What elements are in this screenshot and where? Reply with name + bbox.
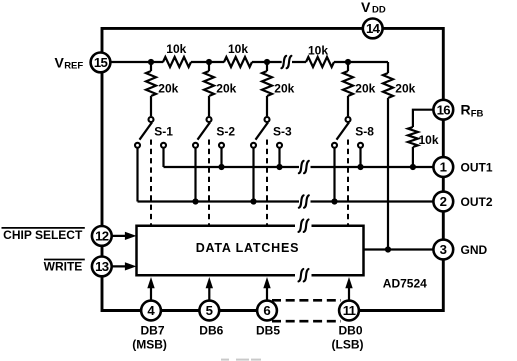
svg-text:12: 12 bbox=[95, 229, 109, 244]
svg-text:OUT1: OUT1 bbox=[461, 160, 493, 174]
svg-text:16: 16 bbox=[437, 102, 451, 117]
svg-text:V: V bbox=[55, 55, 65, 71]
svg-text:DATA LATCHES: DATA LATCHES bbox=[196, 241, 300, 255]
svg-text:AD7524: AD7524 bbox=[383, 277, 427, 291]
svg-text:11: 11 bbox=[343, 303, 356, 318]
svg-text:DB7: DB7 bbox=[140, 323, 164, 337]
svg-text:(LSB): (LSB) bbox=[332, 337, 364, 351]
svg-text:GND: GND bbox=[461, 243, 488, 257]
svg-text:20k: 20k bbox=[395, 81, 415, 95]
svg-text:6: 6 bbox=[263, 303, 270, 318]
svg-text:10k: 10k bbox=[419, 133, 439, 147]
svg-text:10k: 10k bbox=[228, 42, 248, 56]
svg-text:5: 5 bbox=[206, 303, 213, 318]
svg-text:15: 15 bbox=[94, 55, 108, 70]
svg-text:S-8: S-8 bbox=[355, 125, 374, 139]
svg-text:DB6: DB6 bbox=[199, 323, 223, 337]
svg-text:10k: 10k bbox=[166, 42, 186, 56]
svg-text:DD: DD bbox=[372, 5, 386, 16]
svg-text:CHIP SELECT: CHIP SELECT bbox=[3, 228, 83, 242]
svg-text:S-1: S-1 bbox=[154, 125, 173, 139]
svg-text:20k: 20k bbox=[216, 81, 236, 95]
svg-text:14: 14 bbox=[366, 21, 381, 36]
svg-text:S-3: S-3 bbox=[273, 125, 292, 139]
svg-text:2: 2 bbox=[440, 194, 447, 209]
svg-text:R: R bbox=[461, 102, 471, 118]
svg-text:1: 1 bbox=[440, 160, 447, 175]
svg-text:WRITE: WRITE bbox=[44, 260, 83, 274]
svg-text:DB5: DB5 bbox=[256, 323, 280, 337]
svg-text:DB0: DB0 bbox=[338, 323, 362, 337]
svg-text:FB: FB bbox=[471, 108, 484, 119]
svg-text:20k: 20k bbox=[158, 81, 178, 95]
svg-text:10k: 10k bbox=[308, 43, 328, 57]
svg-text:S-2: S-2 bbox=[216, 125, 235, 139]
svg-text:20k: 20k bbox=[274, 81, 294, 95]
svg-text:V: V bbox=[361, 0, 371, 15]
svg-text:4: 4 bbox=[147, 303, 155, 318]
svg-text:(MSB): (MSB) bbox=[132, 337, 167, 351]
svg-text:REF: REF bbox=[64, 60, 83, 71]
svg-text:13: 13 bbox=[95, 259, 109, 274]
svg-text:OUT2: OUT2 bbox=[461, 195, 493, 209]
svg-text:20k: 20k bbox=[355, 81, 375, 95]
svg-text:3: 3 bbox=[440, 242, 447, 257]
